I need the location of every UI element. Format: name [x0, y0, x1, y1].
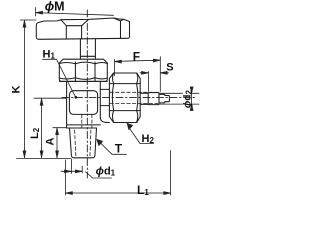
svg-text:F: F	[133, 50, 140, 64]
svg-text:T: T	[115, 142, 123, 156]
svg-text:ϕd2: ϕd2	[183, 90, 194, 109]
svg-text:S: S	[166, 61, 173, 73]
svg-text:ϕM: ϕM	[45, 0, 65, 13]
svg-text:K: K	[11, 86, 23, 94]
svg-text:A: A	[45, 138, 57, 146]
